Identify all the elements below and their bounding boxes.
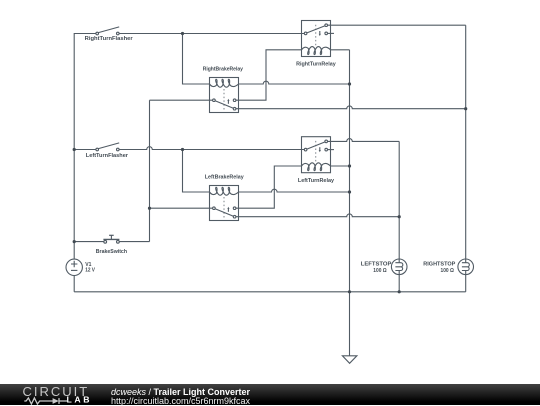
junction node at LeftTurnFlasher output	[181, 148, 184, 151]
relay RightBrakeRelay	[210, 78, 239, 113]
svg-text:LeftBrakeRelay: LeftBrakeRelay	[205, 175, 245, 181]
svg-text:LEFTSTOP: LEFTSTOP	[361, 261, 392, 267]
wire LeftBrakeRelay arm contact to LEFTSTOP rail with hop	[236, 214, 399, 217]
svg-text:RightTurnFlasher: RightTurnFlasher	[85, 36, 134, 42]
svg-text:RIGHTSTOP: RIGHTSTOP	[423, 261, 455, 267]
wire RightBrakeRelay common	[150, 99, 213, 101]
wire bottom rail	[74, 291, 466, 293]
relay LeftBrakeRelay	[210, 186, 239, 221]
junction node RightBrakeRelay coil out	[348, 82, 351, 85]
wire RightTurnRelay contact to right rail	[328, 24, 466, 26]
lamp RIGHTSTOP	[458, 259, 474, 275]
wire relay rail x349 down to ground	[349, 50, 351, 356]
wire right rail below RIGHTSTOP	[465, 275, 467, 292]
svg-text:100 Ω: 100 Ω	[441, 268, 455, 274]
switch BrakeSwitch	[103, 235, 119, 243]
wire BrakeSwitch row	[74, 241, 149, 243]
wire LeftTurnRelay contact to LEFTSTOP rail with hop	[328, 139, 400, 142]
switch RightTurnFlasher	[96, 27, 119, 35]
junction node at BrakeSwitch left	[73, 240, 76, 243]
relay LeftTurnRelay	[302, 137, 335, 173]
footer title text	[111, 387, 250, 397]
wire LeftBrakeRelay coil in	[183, 150, 210, 193]
junction node right rail brake wire	[464, 107, 467, 110]
wire RightBrakeRelay coil out with hop	[239, 81, 350, 84]
wire RightBrakeRelay coil in	[183, 34, 210, 85]
wire top row right of RightTurnFlasher	[119, 33, 304, 35]
logo CircuitLab	[0, 380, 110, 405]
junction node ground at bottom rail	[348, 290, 351, 293]
svg-text:BrakeSwitch: BrakeSwitch	[96, 249, 128, 255]
junction node at RightTurnFlasher output	[181, 32, 184, 35]
wire LEFTSTOP to bottom rail	[398, 275, 400, 292]
junction node LeftBrakeRelay coil out	[348, 190, 351, 193]
wire left rail bottom	[73, 275, 75, 291]
svg-text:LeftTurnRelay: LeftTurnRelay	[298, 178, 335, 184]
junction node LeftTurnRelay coil out	[348, 164, 351, 167]
voltage source V1	[66, 259, 82, 275]
relay RightTurnRelay	[302, 21, 335, 57]
wire LeftTurnFlasher row with hop	[74, 147, 304, 150]
svg-text:RightTurnRelay: RightTurnRelay	[296, 62, 336, 68]
wire LeftBrakeRelay coil out with hop	[239, 189, 350, 192]
junction node LEFTSTOP bottom	[398, 290, 401, 293]
wire LeftBrakeRelay NO contact to LeftTurnRelay coil	[236, 166, 302, 208]
wire RightBrakeRelay NO contact to RightTurnRelay coil	[236, 50, 302, 100]
wire RightBrakeRelay arm contact to right rail with hop	[236, 106, 466, 109]
svg-text:100 Ω: 100 Ω	[373, 268, 387, 274]
footer url text	[111, 396, 250, 406]
wire LeftTurnRelay coil out	[331, 165, 350, 167]
wire left rail top	[74, 34, 96, 260]
junction node at LeftTurnFlasher left	[73, 148, 76, 151]
wire right rail	[465, 25, 467, 259]
switch LeftTurnFlasher	[96, 143, 119, 151]
wire LeftBrakeRelay common	[150, 207, 213, 209]
svg-text:12 V: 12 V	[85, 268, 95, 274]
svg-text:LAB: LAB	[67, 395, 93, 405]
junction node LEFTSTOP brake wire	[398, 215, 401, 218]
ground	[342, 356, 357, 364]
wire LEFTSTOP rail	[398, 141, 400, 259]
wire BrakeSwitch riser	[149, 100, 151, 241]
svg-text:RightBrakeRelay: RightBrakeRelay	[203, 67, 244, 73]
footer bar	[0, 384, 540, 405]
junction node LeftBrakeRelay common riser	[148, 207, 151, 210]
lamp LEFTSTOP	[391, 259, 407, 275]
svg-text:LeftTurnFlasher: LeftTurnFlasher	[86, 153, 129, 159]
wire RightTurnRelay coil out	[331, 49, 350, 51]
